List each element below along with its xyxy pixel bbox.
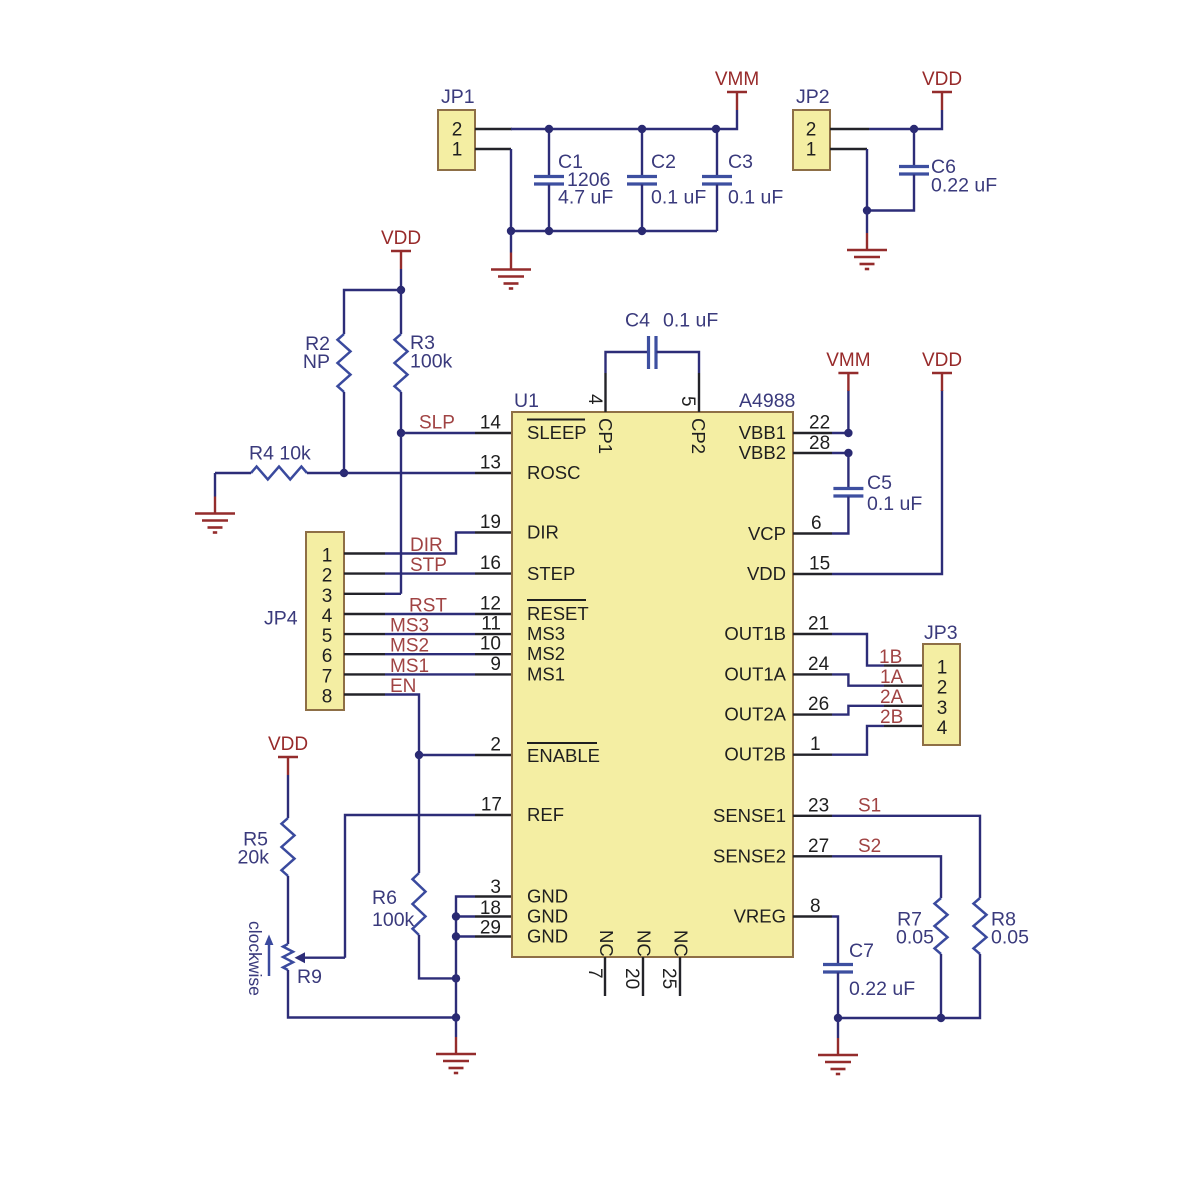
wire R7 bottom [940,954,942,1018]
wire JP4 pin7 to MS1 [385,673,475,675]
svg-text:R9: R9 [297,966,322,988]
wire GND pin18 [456,915,475,917]
VDD power symbol mid left [381,228,421,269]
svg-text:CP2: CP2 [688,418,709,454]
resistor R8 [974,898,987,954]
U1 pin 14 stub [475,432,512,434]
U1 pin 29 stub [475,935,512,937]
wire ROSC node to U1 pin 13 [344,472,475,474]
junction GND29 [452,932,460,940]
capacitor C2 [627,129,657,231]
svg-text:GND: GND [527,886,568,907]
JP4 pin stubs [344,554,385,695]
svg-text:4.7 uF: 4.7 uF [558,187,613,209]
VDD power symbol lower left [268,734,308,775]
connector JP4 [306,532,344,710]
svg-text:VDD: VDD [381,228,421,249]
U1 pin 10 stub [475,653,512,655]
capacitor C4 [606,336,700,373]
wire JP1 pin1 to ground rail [511,149,717,231]
junction R6 bottom [452,974,460,982]
svg-text:EN: EN [390,676,416,697]
label C6 0.22uF [931,156,997,197]
U1 pin 5 stub [698,373,700,412]
svg-text:C2: C2 [651,151,676,173]
JP3 pin numbers [937,658,948,739]
U1 pin 15 stub [793,573,832,575]
svg-text:MS2: MS2 [390,636,429,657]
svg-text:0.22 uF: 0.22 uF [849,978,915,1000]
capacitor C3 [702,129,732,231]
svg-text:21: 21 [808,614,829,635]
junction ground rail left [452,1013,460,1021]
svg-text:6: 6 [811,513,822,534]
ground below JP2 [866,211,868,234]
wire R5 to R9 [287,876,289,944]
svg-text:S2: S2 [858,836,881,857]
svg-text:0.1 uF: 0.1 uF [651,187,706,209]
svg-text:VDD: VDD [747,563,786,584]
JP3 pin 4 stub [884,725,923,727]
label R5 20k [238,829,270,869]
svg-text:SENSE2: SENSE2 [713,845,786,866]
U1 pin 25 stub [679,957,681,996]
svg-text:19: 19 [480,512,501,533]
label R3 100k [410,332,453,373]
U1 pin 13 stub [475,472,512,474]
capacitor C1 [534,129,564,231]
svg-text:15: 15 [809,554,830,575]
connector JP3 [923,644,960,745]
label C5 0.1uF [867,472,922,515]
resistor R2 [338,334,351,392]
wire VBB2 [832,452,848,454]
wire R8 bottom [941,954,980,1018]
U1 pin 7 stub [604,957,606,996]
U1 pin 18 stub [475,915,512,917]
ground bottom left [455,1018,457,1038]
svg-text:22: 22 [809,413,830,434]
U1 top pin names CP1 CP2 [595,418,709,454]
svg-text:MS3: MS3 [390,616,429,637]
svg-text:8: 8 [322,687,333,708]
U1 pin 19 stub [475,531,512,533]
U1 pin 21 stub [793,633,832,635]
svg-text:0.05: 0.05 [896,927,934,949]
junction C6 bottom [863,206,871,214]
resistor R6 [413,873,426,935]
svg-text:DIR: DIR [527,522,559,543]
wire R3 bottom to SLP node [400,392,402,433]
wire R2 bottom [343,392,345,473]
JP3 pin 3 stub [884,705,923,707]
wire OUT1A to JP3 pin2 [832,674,884,685]
U1 pin 17 stub [475,814,512,816]
JP2 pin 1 stub [830,148,867,150]
wire JP4 pin5 to MS3 [385,633,475,635]
wire OUT2B to JP3 pin4 [832,726,884,755]
wire OUT2A to JP3 pin3 [832,706,884,715]
svg-text:VMM: VMM [826,350,870,371]
junction VDD node [397,286,405,294]
wire JP4 pin3 to R3 net [385,593,401,595]
wire JP2 pin2 to VDD [869,110,942,129]
connector JP2 [793,110,830,170]
U1 right pin names [713,422,787,927]
svg-text:20: 20 [621,968,642,989]
capacitor C6 [867,129,929,211]
svg-text:JP1: JP1 [441,86,475,108]
resistor R5 [282,818,295,876]
U1 pin 4 stub [604,373,606,412]
svg-text:C3: C3 [728,151,753,173]
svg-text:NP: NP [303,351,330,373]
junction dots top rail [545,125,720,133]
svg-text:MS3: MS3 [527,623,565,644]
svg-text:A4988: A4988 [739,390,795,412]
svg-text:5: 5 [677,396,698,407]
svg-text:27: 27 [808,836,829,857]
svg-text:2: 2 [937,678,948,699]
svg-text:SENSE1: SENSE1 [713,805,786,826]
svg-text:100k: 100k [410,351,453,373]
wire JP2 pin1 down [866,149,868,211]
U1 bottom NC pin names [596,930,692,957]
svg-text:7: 7 [322,666,333,687]
U1 pin 6 stub [793,532,832,534]
svg-text:MS1: MS1 [390,656,429,677]
junction GND18 [452,912,460,920]
JP3 pin 1 stub [884,664,923,666]
label C3 0.1uF [728,151,783,209]
svg-text:VDD: VDD [922,69,962,90]
resistor R7 [935,898,948,954]
svg-text:4: 4 [584,394,605,405]
svg-text:C7: C7 [849,940,874,962]
svg-text:MS2: MS2 [527,643,565,664]
wire JP4 pin6 to MS2 [385,653,475,655]
svg-text:CP1: CP1 [595,418,616,454]
svg-text:U1: U1 [514,390,539,412]
svg-text:6: 6 [322,646,333,667]
svg-text:DIR: DIR [410,535,443,556]
svg-text:13: 13 [480,453,501,474]
U1 pin 1 stub [793,754,832,756]
svg-text:OUT2B: OUT2B [724,744,786,765]
svg-text:OUT1A: OUT1A [724,663,786,684]
ground bottom right [837,1018,839,1038]
svg-text:JP3: JP3 [924,622,958,644]
svg-text:17: 17 [481,795,502,816]
wire SENSE2 to R7 [832,856,941,898]
svg-text:11: 11 [481,614,501,635]
svg-text:1: 1 [322,546,333,567]
JP4 pin numbers [322,546,333,708]
wire JP4 pin4 to RESET [385,613,475,615]
wire R9 bottom to ground rail [288,970,456,1018]
svg-text:8: 8 [810,896,821,917]
svg-text:9: 9 [490,654,501,675]
U1 pin 9 stub [475,673,512,675]
svg-text:4: 4 [937,718,948,739]
svg-text:2: 2 [322,566,333,587]
wire R9 wiper to U1 pin 17 REF [345,815,475,958]
IC U1 A4988 [512,412,793,957]
svg-text:NC: NC [634,930,655,957]
U1 pin 3 stub [475,895,512,897]
label R6 100k [372,887,415,931]
svg-text:VDD: VDD [922,350,962,371]
svg-text:REF: REF [527,804,564,825]
clockwise arrow [265,935,274,977]
U1 left pin names [527,420,600,947]
wire sense ground rail [838,1017,941,1019]
svg-text:R4 10k: R4 10k [249,443,311,465]
svg-text:clockwise: clockwise [245,921,265,996]
U1 pin 20 stub [642,957,644,996]
wire SENSE1 to R8 [832,816,980,898]
svg-text:26: 26 [808,694,829,715]
U1 pin 12 stub [475,613,512,615]
svg-text:RST: RST [409,596,447,617]
junction SLP node [397,429,405,437]
svg-text:R6: R6 [372,887,397,909]
wire ENABLE node to U1 pin 2 [419,754,475,756]
VMM power symbol [715,69,759,110]
svg-text:5: 5 [322,626,333,647]
label C7 0.22uF [849,940,915,1000]
wire VDD pin15 [832,390,942,574]
svg-text:GND: GND [527,926,568,947]
JP1 pin 1 stub [475,148,511,150]
U1 pin 11 stub [475,633,512,635]
svg-text:NC: NC [671,930,692,957]
wire VDD to R5 [287,775,289,818]
JP2 pin 2 stub [830,128,869,130]
svg-text:VREG: VREG [734,906,786,927]
svg-text:16: 16 [480,553,501,574]
svg-text:JP4: JP4 [264,608,298,630]
wire JP4 pin1 to DIR [385,533,475,554]
svg-text:C4: C4 [625,310,650,332]
U1 pin 22 stub [793,432,832,434]
svg-text:0.1 uF: 0.1 uF [663,310,718,332]
wire SLP node down to JP4 pin3 [400,433,402,594]
U1 pin 16 stub [475,572,512,574]
wire JP4 pin8 to EN [385,695,419,756]
U1 pin 28 stub [793,452,832,454]
label R8 0.05 [991,909,1029,949]
U1 pin 27 stub [793,855,832,857]
svg-text:ENABLE: ENABLE [527,745,600,766]
svg-text:3: 3 [322,586,333,607]
svg-text:OUT2A: OUT2A [724,704,786,725]
svg-text:JP2: JP2 [796,86,830,108]
svg-text:GND: GND [527,906,568,927]
label R2 NP [303,333,330,373]
resistor R4 [215,467,344,480]
JP1 pin 2 stub [475,128,512,130]
junction VBB2 [844,449,852,457]
svg-text:STEP: STEP [527,563,575,584]
U1 pin 26 stub [793,713,832,715]
label R7 0.05 [896,909,934,949]
svg-text:VCP: VCP [748,523,786,544]
svg-text:1: 1 [810,734,821,755]
svg-text:14: 14 [480,413,502,434]
wire ENABLE node to R6 [418,755,420,873]
svg-text:STP: STP [410,555,447,576]
wire R3 top lead [400,290,402,334]
wire VBB1 to VMM [832,390,848,433]
svg-text:4: 4 [322,606,333,627]
svg-text:S1: S1 [858,796,881,817]
junction VBB1 [844,429,852,437]
svg-text:MS1: MS1 [527,663,565,684]
svg-text:25: 25 [658,968,679,989]
capacitor C7 [823,965,853,1019]
VMM power symbol right [826,350,870,391]
VDD power symbol right [922,350,962,391]
svg-text:3: 3 [490,877,501,898]
wire VMM rail [511,110,737,129]
svg-text:2: 2 [490,735,501,756]
ground below R4 [214,473,216,497]
wire SLP node to U1 pin 14 [401,432,475,434]
svg-text:2: 2 [452,120,463,141]
svg-text:18: 18 [480,898,501,919]
wire JP4 pin2 to STEP [385,572,475,574]
label C2 0.1uF [651,151,706,209]
svg-text:0.1 uF: 0.1 uF [867,493,922,515]
U1 pin 2 stub [475,754,512,756]
wire VREG to C7 [832,917,838,965]
svg-text:ROSC: ROSC [527,462,580,483]
svg-text:28: 28 [809,433,830,454]
wire R6 bottom [419,935,456,978]
svg-text:10: 10 [480,634,501,655]
svg-text:1: 1 [452,140,463,161]
svg-text:VBB2: VBB2 [739,442,786,463]
svg-text:C5: C5 [867,472,892,494]
ground below JP1 [510,231,512,253]
svg-text:24: 24 [808,654,830,675]
svg-text:VMM: VMM [715,69,759,90]
U1 pin 23 stub [793,815,832,817]
junction ROSC node [340,469,348,477]
svg-text:1: 1 [806,140,817,161]
svg-text:0.1 uF: 0.1 uF [728,187,783,209]
svg-text:23: 23 [808,796,829,817]
svg-text:3: 3 [937,698,948,719]
junction ENABLE node [415,751,423,759]
VDD power symbol top right [922,69,962,110]
U1 pin 24 stub [793,673,832,675]
svg-text:29: 29 [480,918,501,939]
U1 pin 8 stub [793,915,832,917]
junction C6 top [910,125,918,133]
svg-text:1: 1 [937,658,948,679]
svg-text:0.05: 0.05 [991,927,1029,949]
wire to R2 top [344,290,401,334]
wire OUT1B to JP3 pin1 [832,634,884,666]
connector JP1 [438,110,475,170]
wire VDD to R2 R3 [400,269,402,290]
svg-text:OUT1B: OUT1B [724,623,786,644]
svg-text:RESET: RESET [527,603,589,624]
wire GND pin3 corner [456,897,475,1018]
label C4 0.1uF [625,310,718,332]
svg-text:NC: NC [596,930,617,957]
junction dots bottom rail [507,227,646,235]
svg-text:SLEEP: SLEEP [527,422,587,443]
JP3 pin 2 stub [884,685,923,687]
potentiometer R9 [283,944,345,970]
svg-text:2: 2 [806,120,817,141]
wire GND pin29 [456,935,475,937]
resistor R3 [395,334,408,392]
svg-text:7: 7 [584,968,605,979]
junction R7 bottom [937,1014,945,1022]
svg-text:VDD: VDD [268,734,308,755]
svg-text:0.22 uF: 0.22 uF [931,175,997,197]
svg-text:20k: 20k [238,847,270,869]
label C1 1206 4.7uF [558,151,613,209]
svg-text:VBB1: VBB1 [739,422,786,443]
capacitor C5 [832,453,863,534]
svg-text:SLP: SLP [419,413,455,434]
svg-text:100k: 100k [372,909,415,931]
junction C7 bottom [834,1014,842,1022]
svg-text:12: 12 [480,594,501,615]
